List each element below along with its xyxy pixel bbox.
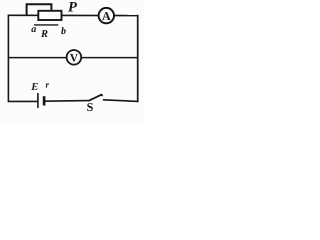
voltmeter V bbox=[67, 50, 82, 65]
wire top bbox=[8, 14, 138, 16]
wire middle bbox=[8, 57, 138, 59]
wire bottom-right segment bbox=[103, 100, 138, 102]
wire bottom-middle segment bbox=[44, 100, 89, 103]
rheostat slider loop wire bbox=[27, 4, 52, 16]
resistor R body bbox=[38, 11, 61, 20]
svg-text:V: V bbox=[70, 52, 79, 64]
svg-text:P: P bbox=[68, 0, 77, 16]
svg-text:a: a bbox=[31, 24, 36, 35]
battery E long plate bbox=[37, 93, 39, 108]
svg-text:S: S bbox=[87, 100, 94, 114]
svg-text:A: A bbox=[102, 9, 111, 23]
battery E short plate bbox=[43, 96, 46, 105]
rheostat base line bbox=[34, 24, 58, 26]
switch S lever tip contact bbox=[101, 94, 104, 96]
wire left vertical bbox=[7, 14, 9, 102]
svg-text:b: b bbox=[61, 26, 66, 37]
wire bottom-left segment bbox=[8, 100, 38, 102]
svg-text:R: R bbox=[40, 29, 48, 40]
svg-text:r: r bbox=[46, 80, 50, 90]
svg-text:E: E bbox=[30, 82, 38, 93]
switch S lever bbox=[88, 94, 101, 101]
ammeter A bbox=[99, 8, 114, 23]
wire right vertical bbox=[137, 15, 139, 102]
